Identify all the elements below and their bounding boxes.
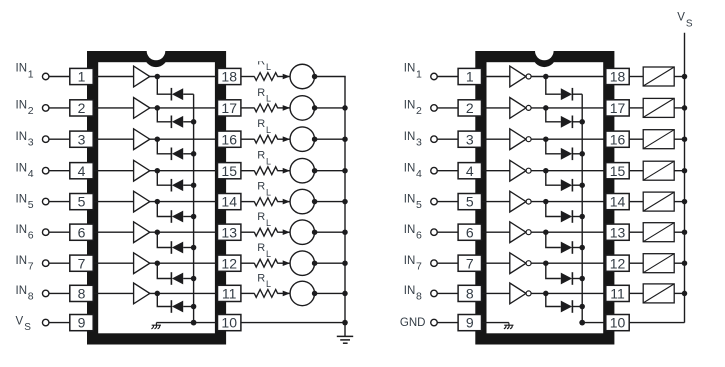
value label RL5 (257, 181, 271, 198)
diode D10 (cathode right) (561, 116, 573, 129)
svg-text:IN: IN (16, 100, 28, 112)
junction load L1 output node (312, 74, 318, 80)
wire load L7 to ground rail (315, 262, 346, 264)
value label RL6 (257, 211, 271, 228)
svg-text:4: 4 (466, 163, 474, 179)
junction diode D3 on bus (191, 151, 197, 157)
substrate ground symbol (right circuit) (504, 323, 514, 329)
terminal IN1 (42, 73, 49, 80)
wire inverter B4 output to pin 15 (511, 170, 608, 172)
wire load L2 to ground rail (315, 107, 346, 109)
wire IN8 input row to pin 8 and buffer A8 (49, 292, 134, 294)
wire diode D3 to common bus (183, 153, 193, 155)
pin 4 box (right circuit) (458, 163, 481, 179)
wire diode D2 to common bus (183, 121, 193, 123)
inverter B2 output bubble (526, 105, 531, 110)
diode D13 (cathode right) (561, 210, 573, 223)
label IN7 (16, 255, 34, 273)
inverter B8 output bubble (526, 291, 531, 296)
junction load L8 output node (312, 291, 318, 297)
wire buffer A4 output drop to diode D4 (157, 171, 171, 186)
svg-text:L: L (266, 125, 271, 135)
junction node buffer A7 output (155, 260, 161, 266)
junction load L6 output node (312, 229, 318, 235)
load resistor box row 5 (643, 192, 674, 211)
svg-text:2: 2 (28, 105, 34, 117)
wire load L3 to ground rail (315, 138, 346, 140)
value label RL3 (257, 118, 271, 135)
buffer A5 (134, 191, 150, 212)
wire IN5 input row to pin 5 and inverter B5 (437, 201, 510, 203)
wire IN7 input row to pin 7 and buffer A7 (49, 262, 134, 264)
svg-text:12: 12 (610, 255, 626, 271)
pin 13 box (right circuit) (606, 224, 629, 240)
svg-text:1: 1 (28, 69, 34, 81)
wire load row 6 to VS rail (674, 231, 684, 233)
resistor RL5 (254, 198, 277, 206)
wire buffer A3 output to pin 16 (134, 138, 219, 140)
diode D3 (cathode left) (171, 148, 183, 161)
wire buffer A7 output drop to diode D7 (157, 263, 171, 278)
svg-text:R: R (257, 87, 265, 99)
load L6 (lamp circle) (290, 220, 315, 245)
wire buffer A2 output drop to diode D2 (157, 108, 171, 122)
junction diode D12 on bus (579, 182, 585, 188)
wire pin 13 to resistor RL6 (241, 231, 255, 233)
label IN1 (right circuit) (404, 63, 422, 81)
wire load row 5 to VS rail (674, 201, 684, 203)
wire inverter B2 output drop to diode D10 (546, 108, 561, 122)
svg-text:IN: IN (16, 131, 28, 143)
pin 8 box (70, 285, 93, 301)
diode D11 (cathode right) (561, 148, 573, 161)
svg-text:6: 6 (28, 230, 34, 242)
wire resistor RL1 to load L1 (277, 76, 290, 78)
wire load L6 to ground rail (315, 231, 346, 233)
junction VS rail row 4 (682, 168, 688, 174)
pin 17 box (right circuit) (606, 100, 629, 116)
label VS (left circuit) (16, 316, 32, 334)
load L2 (lamp circle) (290, 96, 315, 121)
wire IN4 input row to pin 4 and buffer A4 (49, 170, 134, 172)
wire resistor RL4 to load L4 (277, 170, 290, 172)
junction ground rail row 8 (342, 291, 348, 297)
load resistor box row 2 (643, 98, 674, 117)
pin 10 box (right circuit) (606, 315, 629, 331)
wire pin 14 to resistor RL5 (241, 201, 255, 203)
label IN5 (16, 193, 34, 211)
svg-text:3: 3 (78, 131, 86, 147)
diode D6 (cathode left) (171, 241, 183, 254)
svg-text:IN: IN (404, 193, 416, 205)
svg-text:7: 7 (78, 255, 86, 271)
diode D5 (cathode left) (171, 210, 183, 223)
pin 14 box (218, 194, 241, 210)
wire diode D8 to common bus (183, 306, 193, 308)
junction diode D11 on bus (579, 151, 585, 157)
resistor RL3 (254, 135, 277, 143)
svg-text:14: 14 (221, 194, 237, 210)
current-flow arrow into load L5 (283, 199, 290, 205)
wire pin 17 to load resistor (629, 107, 643, 109)
terminal IN1 (right circuit) (431, 73, 438, 80)
wire bus to substrate ground and pin 10 (156, 322, 219, 324)
wire diode D15 to common bus (572, 278, 582, 280)
label IN6 (right circuit) (404, 224, 422, 242)
value label RL2 (257, 87, 271, 104)
svg-text:8: 8 (28, 291, 34, 303)
wire resistor RL6 to load L6 (277, 231, 290, 233)
resistor RL7 (254, 259, 277, 267)
svg-text:L: L (266, 249, 271, 259)
wire resistor RL2 to load L2 (277, 107, 290, 109)
terminal IN5 (42, 198, 49, 205)
svg-text:15: 15 (221, 163, 237, 179)
pin 9 box (70, 315, 93, 331)
wire buffer A6 output to pin 13 (134, 231, 219, 233)
wire inverter B7 output drop to diode D15 (546, 263, 561, 278)
svg-text:R: R (257, 272, 265, 284)
load L3 (lamp circle) (290, 127, 315, 152)
junction node buffer A8 output (155, 291, 161, 297)
pin 9 box (right circuit) (458, 315, 481, 331)
junction node inverter B5 output (543, 199, 549, 205)
svg-text:V: V (16, 316, 24, 328)
svg-text:L: L (266, 94, 271, 104)
svg-text:6: 6 (466, 224, 474, 240)
pin 15 box (right circuit) (606, 163, 629, 179)
wire inverter B8 output drop to diode D16 (546, 293, 561, 306)
wire pin 16 to load resistor (629, 138, 643, 140)
label IN6 (16, 224, 34, 242)
wire IN6 input row to pin 6 and buffer A6 (49, 231, 134, 233)
wire diode D6 to common bus (183, 247, 193, 249)
load L4 (lamp circle) (290, 158, 315, 183)
junction VS rail row 3 (682, 136, 688, 142)
wire load row 7 to VS rail (674, 262, 684, 264)
wire resistor RL7 to load L7 (277, 262, 290, 264)
pin 14 box (right circuit) (606, 194, 629, 210)
wire buffer A3 output drop to diode D3 (157, 139, 171, 154)
wire IN2 input row to pin 2 and inverter B2 (437, 107, 510, 109)
label IN7 (right circuit) (404, 255, 422, 273)
terminal IN2 (right circuit) (431, 105, 438, 112)
junction VS rail row 6 (682, 229, 688, 235)
terminal IN7 (right circuit) (431, 260, 438, 267)
label IN2 (16, 100, 34, 118)
wire buffer A7 output to pin 12 (134, 262, 219, 264)
terminal IN6 (right circuit) (431, 229, 438, 236)
wire diode D7 to common bus (183, 278, 193, 280)
junction bus to pin 10 row (right) (579, 320, 585, 326)
wire resistor RL8 to load L8 (277, 292, 290, 294)
svg-text:8: 8 (466, 286, 474, 302)
wire diode D4 to common bus (183, 184, 193, 186)
svg-text:10: 10 (221, 315, 237, 331)
wire inverter B4 output drop to diode D12 (546, 171, 561, 186)
svg-text:IN: IN (404, 255, 416, 267)
svg-text:5: 5 (78, 194, 86, 210)
wire IN1 input row to pin 1 and buffer A1 (49, 76, 134, 78)
svg-text:1: 1 (416, 69, 422, 81)
value label RL1 (257, 56, 271, 73)
buffer A1 (134, 66, 150, 87)
diode D9 (cathode right) (561, 88, 573, 101)
svg-text:R: R (257, 211, 265, 223)
svg-text:2: 2 (416, 105, 422, 117)
wire load L1 to ground rail (315, 76, 346, 78)
junction load L7 output node (312, 260, 318, 266)
wire IN3 input row to pin 3 and inverter B3 (437, 138, 510, 140)
wire buffer A6 output drop to diode D6 (157, 232, 171, 247)
svg-text:5: 5 (416, 199, 422, 211)
svg-text:6: 6 (78, 224, 86, 240)
inverter B3 (510, 129, 526, 150)
pin 18 box (218, 68, 241, 84)
wire pin 17 to resistor RL2 (241, 107, 255, 109)
junction VS rail row 7 (682, 260, 688, 266)
diode D14 (cathode right) (561, 241, 573, 254)
label IN4 (16, 162, 34, 180)
svg-text:11: 11 (610, 286, 625, 302)
junction diode D14 on bus (579, 245, 585, 251)
pin 12 box (218, 255, 241, 271)
pin 16 box (218, 131, 241, 147)
wire VS terminal to pin 9 (49, 322, 71, 324)
pin 1 box (70, 68, 93, 84)
junction diode D4 on bus (191, 182, 197, 188)
wire pin 15 to load resistor (629, 170, 643, 172)
diode D15 (cathode right) (561, 272, 573, 285)
white patch clipping top of RL1 label (252, 54, 265, 62)
common diode bus (left circuit) (193, 94, 195, 322)
substrate ground symbol (left circuit) (151, 323, 161, 329)
inverter B5 (510, 191, 526, 212)
value label RL8 (257, 272, 271, 289)
junction node buffer A6 output (155, 229, 161, 235)
svg-text:S: S (686, 19, 693, 30)
wire load L5 to ground rail (315, 201, 346, 203)
diode D4 (cathode left) (171, 179, 183, 192)
wire pin 11 to resistor RL8 (241, 292, 255, 294)
wire buffer A5 output to pin 14 (134, 201, 219, 203)
load resistor box row 4 (643, 161, 674, 180)
svg-text:IN: IN (404, 131, 416, 143)
svg-text:IN: IN (404, 63, 416, 75)
svg-text:IN: IN (16, 162, 28, 174)
pin 5 box (right circuit) (458, 194, 481, 210)
value label RL4 (257, 150, 271, 167)
junction ground rail row 7 (342, 260, 348, 266)
svg-text:IN: IN (16, 224, 28, 236)
svg-text:1: 1 (78, 69, 86, 85)
current-flow arrow into load L3 (283, 136, 290, 142)
current-flow arrow into load L6 (283, 229, 290, 235)
svg-text:11: 11 (222, 286, 237, 302)
junction node buffer A5 output (155, 199, 161, 205)
wire load row 2 to VS rail (674, 107, 684, 109)
ground symbol (337, 336, 353, 343)
diode D1 (cathode left) (171, 88, 183, 101)
terminal IN7 (42, 260, 49, 267)
svg-text:IN: IN (404, 285, 416, 297)
svg-text:IN: IN (16, 193, 28, 205)
junction ground rail row 4 (342, 168, 348, 174)
pin 15 box (218, 163, 241, 179)
svg-text:4: 4 (416, 168, 422, 180)
svg-text:6: 6 (416, 230, 422, 242)
pin 8 box (right circuit) (458, 285, 481, 301)
wire load L4 to ground rail (315, 170, 346, 172)
diode D2 (cathode left) (171, 116, 183, 129)
wire pin 9 to substrate ground (right circuit) (482, 322, 509, 324)
inverter B6 output bubble (526, 230, 531, 235)
inverter B7 (510, 253, 526, 274)
wire inverter B3 output drop to diode D11 (546, 139, 561, 154)
wire buffer A8 output to pin 11 (134, 292, 219, 294)
pin 5 box (70, 194, 93, 210)
terminal GND (431, 319, 438, 326)
common diode bus (right circuit) (581, 94, 583, 322)
terminal IN5 (right circuit) (431, 198, 438, 205)
inverter B4 output bubble (526, 168, 531, 173)
junction diode D6 on bus (191, 245, 197, 251)
junction load L3 output node (312, 136, 318, 142)
buffer A8 (134, 283, 150, 304)
junction node buffer A3 output (155, 136, 161, 142)
wire resistor RL3 to load L3 (277, 138, 290, 140)
load L8 (lamp circle) (290, 281, 315, 306)
pin 2 box (right circuit) (458, 100, 481, 116)
wire load row 3 to VS rail (674, 138, 684, 140)
wire inverter B8 output to pin 11 (511, 292, 608, 294)
wire resistor RL5 to load L5 (277, 201, 290, 203)
junction ground rail row 5 (342, 199, 348, 205)
wire pin 18 to resistor RL1 (241, 76, 255, 78)
value label RL7 (257, 242, 271, 259)
svg-text:IN: IN (16, 255, 28, 267)
resistor RL1 (254, 73, 277, 81)
wire inverter B5 output drop to diode D13 (546, 202, 561, 217)
junction diode D15 on bus (579, 276, 585, 282)
junction node inverter B2 output (543, 105, 549, 111)
wire diode D12 to common bus (572, 184, 582, 186)
junction diode D10 on bus (579, 119, 585, 125)
wire inverter B6 output drop to diode D14 (546, 232, 561, 247)
svg-text:IN: IN (16, 285, 28, 297)
diode D7 (cathode left) (171, 272, 183, 285)
load resistor box row 3 (643, 130, 674, 149)
wire load L8 to ground rail (315, 292, 346, 294)
inverter B3 output bubble (526, 137, 531, 142)
svg-text:IN: IN (16, 63, 28, 75)
svg-text:IN: IN (404, 224, 416, 236)
pin 7 box (70, 255, 93, 271)
svg-text:L: L (266, 156, 271, 166)
diode D16 (cathode right) (561, 300, 573, 313)
wire IN7 input row to pin 7 and inverter B7 (437, 262, 510, 264)
svg-text:7: 7 (416, 261, 422, 273)
svg-text:10: 10 (610, 315, 626, 331)
svg-text:IN: IN (404, 162, 416, 174)
wire buffer A4 output to pin 15 (134, 170, 219, 172)
svg-text:16: 16 (610, 131, 626, 147)
svg-text:8: 8 (416, 291, 422, 303)
junction ground rail pin 10 wire (342, 320, 348, 326)
junction node inverter B4 output (543, 168, 549, 174)
wire load row 1 to VS rail (674, 76, 684, 78)
junction diode D13 on bus (579, 214, 585, 220)
label IN4 (right circuit) (404, 162, 422, 180)
junction node inverter B6 output (543, 229, 549, 235)
label IN3 (16, 131, 34, 149)
terminal IN4 (right circuit) (431, 167, 438, 174)
junction diode D16 on bus (579, 304, 585, 310)
junction node buffer A4 output (155, 168, 161, 174)
label IN8 (right circuit) (404, 285, 422, 303)
pin 18 box (right circuit) (606, 68, 629, 84)
wire pin 10 to VS rail (629, 322, 684, 324)
junction node inverter B3 output (543, 136, 549, 142)
current-flow arrow into load L4 (283, 168, 290, 174)
svg-text:2: 2 (466, 100, 474, 116)
wire inverter B2 output to pin 17 (511, 107, 608, 109)
buffer A4 (134, 160, 150, 181)
wire IN4 input row to pin 4 and inverter B4 (437, 170, 510, 172)
inverter B6 (510, 222, 526, 243)
inverter B7 output bubble (526, 261, 531, 266)
wire pin 13 to load resistor (629, 231, 643, 233)
wire pin 12 to resistor RL7 (241, 262, 255, 264)
junction VS rail row 5 (682, 199, 688, 205)
terminal IN6 (42, 229, 49, 236)
junction ground rail row 2 (342, 105, 348, 111)
wire inverter B3 output to pin 16 (511, 138, 608, 140)
load L1 (lamp circle) (290, 64, 315, 89)
wire IN3 input row to pin 3 and buffer A3 (49, 138, 134, 140)
buffer A3 (134, 129, 150, 150)
pin 2 box (70, 100, 93, 116)
svg-text:9: 9 (78, 315, 86, 331)
pin 7 box (right circuit) (458, 255, 481, 271)
inverter B1 (510, 66, 526, 87)
terminal IN8 (right circuit) (431, 290, 438, 297)
pin 10 box (218, 315, 241, 331)
junction diode D8 on bus (191, 304, 197, 310)
wire inverter B1 output drop to diode D9 (546, 77, 561, 95)
svg-text:2: 2 (78, 100, 86, 116)
current-flow arrow into load L1 (283, 74, 290, 80)
wire buffer A8 output drop to diode D8 (157, 293, 171, 306)
pin 11 box (218, 285, 241, 301)
inverter B2 (510, 98, 526, 119)
wire diode D13 to common bus (572, 216, 582, 218)
junction ground rail row 6 (342, 229, 348, 235)
inverter B8 (510, 283, 526, 304)
junction ground rail row 3 (342, 136, 348, 142)
wire IN6 input row to pin 6 and inverter B6 (437, 231, 510, 233)
wire buffer A2 output to pin 17 (134, 107, 219, 109)
wire IN2 input row to pin 2 and buffer A2 (49, 107, 134, 109)
diode D12 (cathode right) (561, 179, 573, 192)
junction node inverter B1 output (543, 74, 549, 80)
pin 3 box (right circuit) (458, 131, 481, 147)
svg-text:17: 17 (221, 100, 237, 116)
svg-text:16: 16 (221, 131, 237, 147)
svg-text:13: 13 (610, 224, 626, 240)
svg-text:4: 4 (28, 168, 34, 180)
label IN3 (right circuit) (404, 131, 422, 149)
